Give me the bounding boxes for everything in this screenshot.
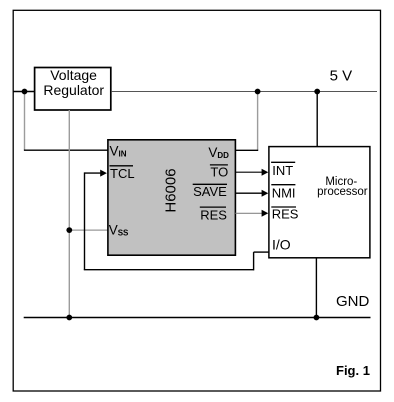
svg-text:Regulator: Regulator [43, 82, 104, 98]
node: junction dot at VSS [66, 227, 72, 233]
wire: gray drop from dot to VIN wire [24, 92, 26, 151]
wire: drop from 5V rail to microprocessor top [316, 92, 318, 147]
svg-text:GND: GND [336, 293, 370, 310]
pin label NMI with overline [271, 184, 295, 186]
arrowhead into TCL [100, 170, 107, 177]
svg-text:processor: processor [317, 186, 368, 198]
node: junction dot GND at microprocessor [314, 315, 320, 321]
svg-text:I/O: I/O [272, 236, 291, 252]
wire: VIN wire into chip [24, 149, 108, 151]
wire: I/O stub into microprocessor [254, 251, 269, 253]
wire: feedback step up [253, 252, 255, 270]
pin label INT with overline [271, 161, 295, 163]
node: junction dot above microprocessor [314, 89, 320, 95]
svg-text:TCL: TCL [110, 166, 135, 181]
svg-text:Fig. 1: Fig. 1 [336, 363, 370, 378]
svg-text:Voltage: Voltage [50, 67, 97, 83]
chip U1 H6006 body [108, 140, 235, 255]
node: junction dot on 5V stub [22, 89, 28, 95]
microprocessor U3 box [269, 147, 370, 258]
wire: gray drop from 5V rail to VDD stub [257, 92, 259, 151]
voltage regulator U2 box [35, 68, 111, 111]
svg-text:H6006: H6006 [162, 168, 179, 212]
svg-text:INT: INT [272, 163, 293, 178]
wire: GND rail [24, 317, 371, 319]
svg-text:NMI: NMI [272, 185, 296, 200]
svg-text:RES: RES [272, 206, 299, 221]
wire: gray regulator output down to GND rail [68, 110, 70, 318]
wire: 5V rail left stub (border to regulator) [13, 91, 34, 93]
wire: SAVE to NMI arrow [235, 192, 263, 194]
wire: TO to INT arrow [235, 171, 263, 173]
wire: RES to RES arrow (gray) [235, 212, 263, 214]
wire: TCL feedback riser [84, 172, 86, 269]
wire: VDD stub from chip [235, 149, 258, 151]
node: junction dot on GND rail left [66, 315, 72, 321]
svg-text:RES: RES [200, 208, 227, 223]
wire: microprocessor bottom to GND [315, 258, 317, 318]
wire: 5V rail (regulator to right) [111, 91, 377, 93]
svg-text:SAVE: SAVE [193, 184, 227, 199]
pin label RES with overline [200, 206, 226, 208]
node: junction dot above VDD [255, 89, 261, 95]
wire: feedback bottom run [84, 269, 254, 271]
svg-text:5 V: 5 V [330, 67, 353, 84]
svg-text:TO: TO [210, 165, 228, 180]
pin label TCL with overline [110, 165, 134, 167]
wire: VSS wire into chip [69, 229, 107, 231]
pin label TO with overline [210, 164, 228, 166]
arrowhead into RES [262, 210, 269, 217]
wire: TCL horizontal into arrow [85, 172, 102, 174]
arrowhead into INT [262, 169, 269, 176]
arrowhead into NMI [262, 190, 269, 197]
pin label RES with overline [271, 206, 296, 208]
pin label SAVE with overline [193, 183, 227, 185]
